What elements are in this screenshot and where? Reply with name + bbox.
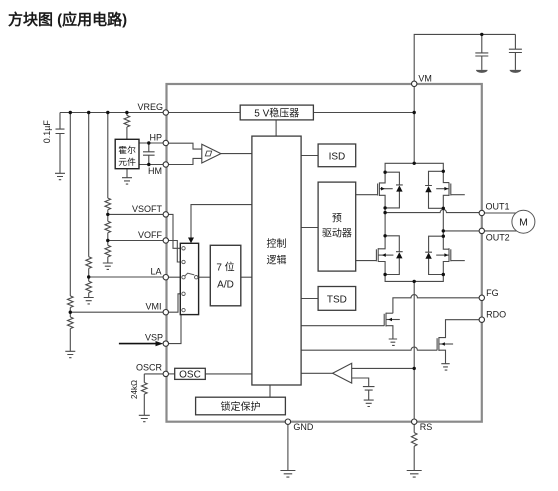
svg-text:FG: FG — [486, 288, 499, 298]
mux box — [180, 243, 198, 314]
wire LA — [89, 276, 166, 278]
pin VOFF — [163, 238, 168, 243]
resistor upper LA chain — [86, 257, 92, 269]
svg-text:VOFF: VOFF — [138, 230, 163, 240]
predriver box — [318, 182, 356, 271]
resistor 24k — [142, 383, 148, 395]
TSD box — [318, 287, 356, 311]
svg-text:逻辑: 逻辑 — [267, 254, 287, 267]
wire control to predriver — [301, 227, 318, 229]
wire AD to control — [241, 276, 252, 278]
wire to VSOFT node — [107, 210, 109, 222]
wire VOFF — [108, 240, 166, 242]
arrow Q4 body — [444, 253, 448, 257]
wire hall to ground — [126, 169, 128, 178]
IC outline — [167, 84, 482, 422]
transistor Q3 gate lead — [451, 194, 465, 196]
transistor Q4 channel bar — [448, 248, 450, 262]
amp triangle A1 — [333, 363, 352, 383]
transistor Q1 gate lead — [356, 194, 378, 196]
wire control to ISD — [301, 155, 318, 157]
mux wiper blade — [185, 273, 194, 276]
pin OUT2 — [479, 228, 484, 233]
pin VMI — [163, 310, 168, 315]
svg-text:控制: 控制 — [267, 237, 287, 250]
wire HP to comparator — [166, 143, 202, 149]
svg-text:LA: LA — [150, 267, 161, 277]
svg-text:锁定保护: 锁定保护 — [221, 400, 261, 413]
transistor Q4 gate lead — [451, 260, 465, 262]
transistor Q3 top-right drain — [443, 171, 449, 182]
transistor Q5 channel bar — [385, 313, 387, 327]
H-bridge bottom rail — [385, 275, 443, 282]
wire HM stub — [139, 164, 166, 166]
pin OSCR — [163, 371, 168, 376]
transistor Q1 body lead — [379, 188, 392, 190]
svg-text:预: 预 — [332, 213, 342, 225]
pin OUT1 — [479, 210, 484, 215]
wire amp input top — [352, 367, 415, 369]
diode D4 — [425, 236, 443, 274]
ground below 24k — [139, 415, 150, 421]
pin VREG — [163, 110, 168, 115]
wire rail drop x=70.3 — [69, 113, 71, 296]
wire VM top — [414, 34, 515, 83]
ground below RS — [407, 471, 422, 478]
transistor Q1 gate bar — [377, 184, 379, 196]
transistor Q6 source — [439, 350, 446, 364]
arrow Q2 body — [382, 253, 386, 257]
wire LA to mux — [166, 276, 182, 278]
wire VM vertical — [413, 84, 415, 164]
comparator U1 — [202, 144, 221, 163]
wire VOFF to mux — [166, 241, 182, 263]
pin VSP — [163, 341, 168, 346]
hysteresis glyph — [205, 151, 211, 156]
transistor Q2 gate bar — [375, 249, 377, 261]
wire to ground — [143, 394, 145, 415]
transistor Q2 gate lead — [356, 260, 377, 262]
wire VSOFT to mux — [166, 214, 182, 248]
wire OSC to control — [205, 373, 252, 375]
mux contact 3 — [182, 276, 185, 279]
svg-text:HP: HP — [149, 133, 162, 143]
wire RDO line — [439, 320, 482, 338]
transistor Q2 channel bar — [377, 248, 379, 262]
wire RDO gate with hop — [301, 347, 437, 350]
ground below LA chain — [84, 298, 94, 304]
mux contact 1 — [182, 247, 185, 250]
svg-text:VSOFT: VSOFT — [132, 204, 163, 214]
wire to ground — [107, 257, 109, 263]
svg-text:驱动器: 驱动器 — [322, 228, 352, 240]
resistor hall supply — [124, 115, 130, 127]
wire to VOFF node — [107, 233, 109, 246]
capacitor VM 2 — [509, 34, 522, 70]
wire HM to comparator — [166, 158, 202, 164]
wire 5V reg to control — [275, 120, 277, 136]
ISD box — [318, 144, 356, 167]
diode D3 — [385, 236, 403, 275]
pin GND — [285, 419, 290, 424]
wire control to lock — [269, 385, 271, 397]
svg-text:OSC: OSC — [179, 370, 201, 381]
svg-text:方块图 (应用电路): 方块图 (应用电路) — [8, 11, 127, 29]
mux contact 4 — [182, 292, 185, 295]
pin RDO — [479, 317, 484, 322]
svg-text:VMI: VMI — [145, 302, 161, 312]
transistor Q5 body lead — [386, 319, 400, 321]
arrowhead into mux — [188, 238, 194, 244]
resistor upper VMI chain — [68, 296, 74, 308]
pin VSOFT — [163, 212, 168, 217]
wire to ground — [88, 293, 90, 298]
pin LA — [163, 275, 168, 280]
resistor VSOFT-VOFF — [105, 221, 111, 233]
wire OUT1 to motor — [482, 212, 516, 214]
resistor below VOFF — [105, 245, 111, 257]
ground below hall — [122, 178, 132, 184]
transistor Q5 gate bar — [383, 314, 385, 326]
svg-text:VREG: VREG — [137, 102, 163, 112]
pin VM — [412, 81, 417, 86]
resistor RS — [411, 433, 417, 447]
transistor Q3 body lead — [436, 188, 449, 190]
H-bridge top rail — [385, 163, 443, 172]
wire control to mux arrow — [191, 205, 252, 240]
wire VSOFT — [108, 213, 166, 215]
ground below Q5 — [389, 339, 397, 345]
wire to hall box — [126, 127, 128, 139]
transistor Q2 body lead — [378, 254, 393, 256]
svg-text:OUT1: OUT1 — [486, 202, 510, 212]
svg-text:元件: 元件 — [118, 156, 136, 167]
diode D2 body — [425, 186, 431, 192]
transistor Q4 source — [443, 262, 449, 275]
mux contact 5 — [182, 308, 185, 311]
pin HM — [163, 162, 168, 167]
svg-text:VSP: VSP — [145, 332, 163, 342]
svg-text:5 V稳压器: 5 V稳压器 — [254, 106, 299, 119]
cap ground dish 1 — [476, 70, 488, 73]
transistor Q5 source — [386, 326, 393, 339]
resistor upper VSOFT chain — [105, 198, 111, 210]
wire to ground — [69, 329, 71, 352]
arrow Q6 body — [441, 342, 445, 346]
capacitor 0.1uF — [56, 113, 65, 174]
control logic box — [252, 136, 301, 385]
capacitor hall coupling — [143, 143, 155, 165]
wire GND pin — [287, 422, 289, 471]
5V regulator box — [240, 105, 313, 120]
wire comparator out — [221, 153, 252, 155]
transistor Q4 bottom-right drain — [443, 236, 449, 249]
ground below VMI chain — [65, 351, 75, 357]
svg-text:OSCR: OSCR — [136, 363, 163, 373]
transistor Q2 source — [378, 262, 385, 275]
transistor Q4 body lead — [436, 254, 449, 256]
svg-text:GND: GND — [293, 422, 314, 432]
wire OUT1 with hop — [385, 209, 482, 212]
svg-text:ISD: ISD — [329, 152, 346, 163]
cap ground dish 2 — [510, 70, 522, 73]
ground below 0.1uF — [55, 173, 65, 179]
wire mux to AD — [198, 276, 210, 278]
wire amp out — [301, 372, 333, 374]
wire RS to ground — [413, 446, 415, 470]
transistor Q1 top-left drain — [379, 172, 385, 183]
ground below VOFF chain — [103, 263, 113, 269]
VSP input arrow — [119, 343, 156, 345]
resistor lower VMI chain — [68, 317, 74, 329]
wire 5V reg output — [313, 112, 414, 114]
wire to LA node — [88, 268, 90, 281]
svg-text:霍尔: 霍尔 — [118, 144, 136, 155]
arrow Q1 body — [381, 187, 385, 191]
wire left bridge mid — [384, 208, 386, 236]
diode D1 — [385, 172, 403, 208]
transistor Q4 gate bar — [450, 249, 452, 261]
ground below GND — [280, 471, 295, 478]
wire rail drop x=126.9 — [126, 113, 128, 116]
svg-text:0.1µF: 0.1µF — [42, 120, 52, 144]
diode D2 — [425, 171, 443, 208]
transistor Q3 source — [443, 195, 449, 208]
ground below Q6 — [441, 364, 449, 370]
svg-text:A/D: A/D — [217, 280, 234, 291]
svg-text:HM: HM — [148, 166, 162, 176]
wire VSP to mux — [166, 310, 182, 344]
wire FG gate — [301, 325, 384, 327]
pin RS — [412, 419, 417, 424]
diode D1 body — [396, 185, 402, 191]
wire RS vertical — [413, 281, 415, 421]
svg-text:TSD: TSD — [327, 295, 347, 306]
wire VREG internal — [166, 112, 240, 114]
pin circles — [163, 81, 484, 424]
resistor lower LA chain — [86, 281, 92, 293]
wire VMI — [70, 311, 166, 313]
arrow Q3 body — [444, 187, 448, 191]
transistor Q1 source — [379, 195, 385, 208]
diode D3 body — [396, 252, 402, 258]
wire OUT2 — [443, 230, 482, 232]
ground amp ref — [364, 400, 374, 406]
motor M — [512, 210, 535, 233]
transistor Q6 gate bar — [436, 338, 438, 350]
transistor Q1 channel bar — [378, 182, 380, 196]
pin HP — [163, 140, 168, 145]
svg-text:RDO: RDO — [486, 310, 506, 320]
OSC box — [175, 368, 206, 379]
wire rail drop x=88.7 — [88, 113, 90, 257]
wire amp ref — [352, 378, 375, 400]
pin FG — [479, 295, 484, 300]
wire OSCR external — [144, 374, 166, 383]
wire OSCR to OSC — [166, 373, 175, 375]
svg-text:OUT2: OUT2 — [486, 233, 510, 243]
wire OUT2 to motor — [482, 230, 517, 232]
svg-text:7 位: 7 位 — [216, 261, 234, 274]
transistor Q6 body lead — [439, 343, 453, 345]
lock protection box — [196, 397, 286, 415]
wire RS pin — [413, 422, 415, 433]
wire right bridge mid — [442, 208, 444, 236]
svg-text:24kΩ: 24kΩ — [130, 380, 139, 399]
wire VREG rail — [60, 112, 166, 114]
capacitor VM 1 — [475, 34, 488, 70]
transistor Q6 channel bar — [438, 337, 440, 351]
svg-text:M: M — [519, 217, 528, 229]
wire control to TSD — [301, 298, 318, 300]
transistor Q3 gate bar — [450, 184, 452, 196]
wire VMI to mux — [166, 294, 182, 312]
wire FG line with hop — [393, 295, 482, 314]
hall element box — [115, 139, 139, 168]
AD converter box — [210, 245, 241, 305]
transistor Q2 bottom-left drain — [378, 236, 385, 249]
svg-text:VM: VM — [418, 74, 432, 84]
svg-text:RS: RS — [420, 422, 433, 432]
diode D4 body — [425, 253, 431, 259]
transistor Q3 channel bar — [448, 182, 450, 196]
wire to VMI node — [69, 308, 71, 318]
arrow Q5 body — [388, 318, 392, 322]
wire rail drop x=107.8 — [107, 113, 109, 199]
mux wiper contact — [195, 276, 198, 279]
mux contact 2 — [182, 260, 185, 263]
transistor Q5 FG drain — [386, 312, 393, 314]
wire HP stub — [139, 142, 166, 144]
